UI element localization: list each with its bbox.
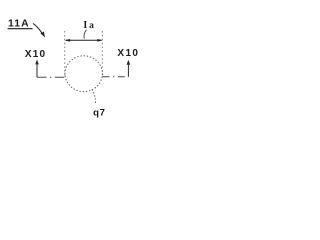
dotted circle q7 [65,56,102,92]
leader arrow from 11A [33,23,45,37]
svg-text:I: I [83,20,87,31]
dimension arrowhead left [65,39,70,42]
svg-text:a: a [89,21,94,31]
svg-text:X10: X10 [117,48,139,59]
extension line left [64,31,66,77]
underline of 11A [8,28,33,30]
extension line right [101,31,103,77]
dimension arrowhead right [97,39,102,42]
right callout horizontal dash-dot line [103,76,129,78]
svg-text:11A: 11A [8,19,30,30]
dimension line Ia [66,39,102,41]
leader curve from Ia to dimension line [84,30,87,39]
left callout arrow (up) [36,63,38,78]
left callout horizontal dash-dot line [37,76,68,78]
dotted tail to q7 label [92,90,95,104]
right callout arrow (up) [127,63,129,77]
svg-text:X10: X10 [25,49,46,60]
svg-text:q7: q7 [93,107,106,118]
